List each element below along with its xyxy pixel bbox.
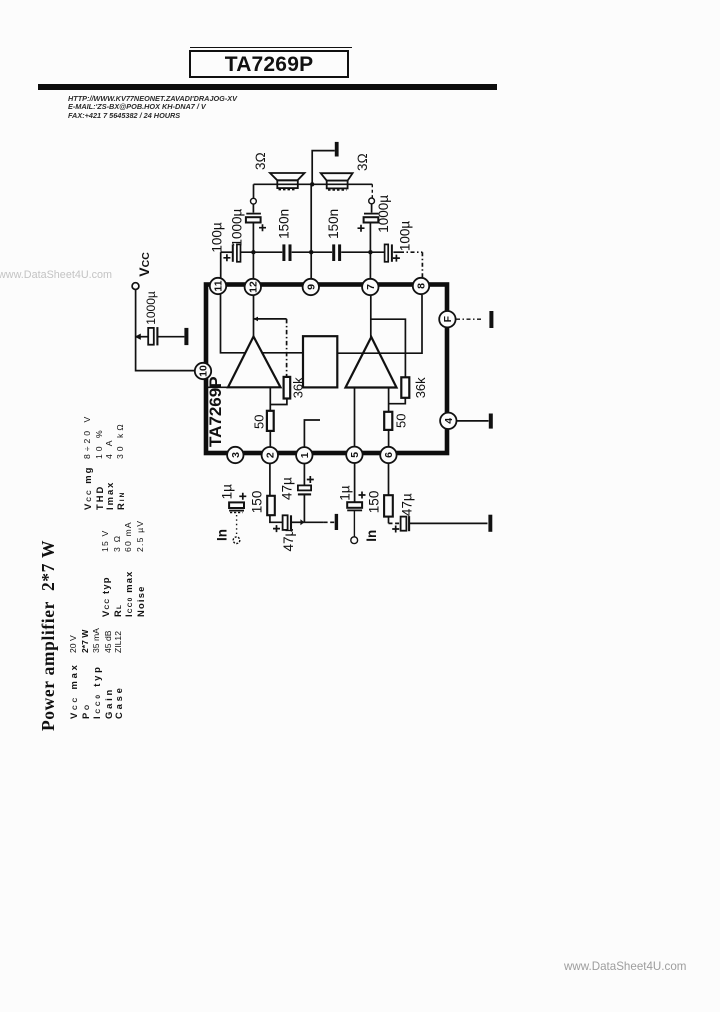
label 47u pin1 <box>280 477 295 500</box>
svg-text:50: 50 <box>394 414 409 428</box>
pin 9 <box>303 279 319 295</box>
svg-text:1µ: 1µ <box>220 484 235 500</box>
label 47u pin2 <box>281 528 296 551</box>
label 150 right <box>367 491 382 514</box>
wire dashed to LS2 terminal <box>371 184 373 197</box>
wire 50 right to pin6 <box>388 430 390 447</box>
label 100u left <box>210 222 225 253</box>
svg-text:6: 6 <box>383 452 395 458</box>
wire output bus <box>221 252 423 278</box>
wire 47u pin6 to ground <box>409 522 487 524</box>
table group C <box>83 466 127 510</box>
node feedback tap arrow <box>253 317 258 322</box>
title Power amplifier <box>38 540 59 731</box>
resistor 36k left <box>284 377 291 399</box>
watermark bottom right <box>564 960 686 973</box>
pin 8 <box>413 278 429 294</box>
label 36k right <box>413 377 428 398</box>
wire pin 4 <box>457 420 489 422</box>
resistor 150 right <box>384 495 393 516</box>
label 1u right <box>338 485 353 501</box>
wire block to pin8 <box>337 295 422 353</box>
label 47u pin6 <box>400 493 415 516</box>
header small italic text <box>68 95 237 120</box>
svg-text:1: 1 <box>299 452 311 458</box>
capacitor 1000u left coupling <box>246 204 266 251</box>
svg-text:150n: 150n <box>326 209 341 239</box>
svg-text:In: In <box>364 530 379 542</box>
label 100u right <box>398 221 413 252</box>
svg-text:3Ω: 3Ω <box>355 153 370 171</box>
wire A1 base to left edge <box>206 386 228 388</box>
label 1u left <box>220 484 235 500</box>
svg-text:1000µ: 1000µ <box>230 208 245 246</box>
wire A1 to resistor 50 <box>269 387 271 411</box>
label 150n left <box>276 209 291 239</box>
capacitor 150n left <box>284 244 290 261</box>
svg-text:2: 2 <box>264 452 276 458</box>
ground pin 4 <box>489 414 493 429</box>
pin 12 <box>245 279 261 295</box>
speaker LS2 3 ohm <box>321 173 353 190</box>
wire 36k right bottom jog <box>389 398 406 404</box>
wire A1 output to block <box>261 352 303 354</box>
wire bus risers to pins <box>253 184 370 279</box>
label LS2 3 ohm <box>355 153 370 171</box>
capacitor 100u left <box>223 244 240 261</box>
table group B <box>101 570 146 617</box>
wire pin1 stub <box>304 420 320 447</box>
node pin1 ground junction <box>300 519 304 525</box>
pin 1 <box>296 447 312 463</box>
title box TA7269P <box>189 50 349 78</box>
ground pin6 section <box>488 515 492 532</box>
wire pin12 to A1 apex <box>253 296 255 337</box>
pin 2 <box>262 447 278 463</box>
label 50 left <box>252 415 267 429</box>
svg-text:4: 4 <box>443 418 455 424</box>
wire pin11 to A1 input <box>221 295 246 353</box>
svg-text:10: 10 <box>198 365 210 377</box>
label 36k left <box>291 377 306 398</box>
wire dashed A1 feedback to 36k <box>286 319 288 377</box>
node VCC filter junction <box>135 334 141 340</box>
label In right <box>364 530 379 542</box>
svg-text:7: 7 <box>365 284 377 290</box>
pin 4 <box>440 413 456 429</box>
svg-text:In: In <box>215 529 230 541</box>
svg-text:47µ: 47µ <box>400 493 415 516</box>
resistor 50 left <box>267 411 274 431</box>
node bus pin9 <box>309 250 313 254</box>
label LS1 3 ohm <box>253 152 268 170</box>
title thin top line <box>190 47 352 48</box>
capacitor 100u right <box>385 244 400 261</box>
node bus pin7 <box>368 250 372 254</box>
svg-text:150n: 150n <box>276 209 291 239</box>
wire 36k left bottom jog <box>270 399 287 405</box>
pin 6 <box>380 447 396 463</box>
wire 150 right to 47u <box>389 517 401 524</box>
svg-text:9: 9 <box>305 284 317 290</box>
capacitor 1u input right <box>347 492 365 511</box>
terminal right speaker <box>369 198 375 204</box>
label 150 left <box>250 491 265 514</box>
svg-text:36k: 36k <box>413 377 428 398</box>
svg-text:50: 50 <box>252 415 267 429</box>
resistor 50 right <box>384 412 392 430</box>
svg-text:1µ: 1µ <box>338 485 353 501</box>
wire 1u right to In <box>353 510 355 536</box>
node bus pin12 <box>251 250 255 254</box>
wire pin7 to A2 apex <box>370 296 372 338</box>
wire A1 feedback tap <box>254 318 287 320</box>
capacitor 47u pin2 <box>273 515 291 532</box>
wire pin6 to 150 <box>388 464 390 496</box>
wire A2 feedback tap <box>371 319 406 377</box>
label 150n right <box>326 209 341 239</box>
wire pin2 to 150 <box>269 463 271 495</box>
svg-text:150: 150 <box>250 491 265 514</box>
svg-text:1000µ: 1000µ <box>376 195 391 233</box>
wire junction to ground <box>304 521 334 523</box>
svg-text:8: 8 <box>416 283 428 289</box>
svg-text:1000µ: 1000µ <box>144 291 158 325</box>
svg-text:47µ: 47µ <box>280 477 295 500</box>
ground input section <box>335 514 338 530</box>
svg-text:100µ: 100µ <box>398 221 413 252</box>
svg-text:F: F <box>442 315 454 322</box>
wire 50 left to pin2 <box>269 431 271 447</box>
pin 7 <box>362 279 378 295</box>
wire A2 to resistor 50 right <box>388 388 390 412</box>
svg-text:3: 3 <box>230 452 242 458</box>
pin 5 <box>346 447 362 463</box>
label 1000u left <box>230 208 245 246</box>
terminal In right <box>351 537 358 544</box>
block bias network <box>303 336 337 387</box>
resistor 36k right <box>401 377 409 398</box>
svg-text:150: 150 <box>367 491 382 514</box>
capacitor 47u pin6 <box>392 516 409 532</box>
svg-text:3Ω: 3Ω <box>253 152 268 170</box>
pin 11 <box>210 278 226 294</box>
label VCC <box>136 252 152 277</box>
wire pin5 to 1u <box>354 463 356 502</box>
ground supply filter <box>184 328 188 345</box>
svg-text:5: 5 <box>349 452 361 458</box>
wire 150 to 47u <box>270 515 283 522</box>
thick rule <box>38 84 497 90</box>
capacitor 150n right <box>334 244 340 261</box>
capacitor 1u input left <box>229 493 246 513</box>
pin 10 <box>195 363 211 379</box>
pin 3 <box>227 447 243 463</box>
svg-text:100µ: 100µ <box>210 222 225 253</box>
svg-text:47µ: 47µ <box>281 528 296 551</box>
resistor 150 left <box>267 496 275 515</box>
op-amp A1 <box>228 337 281 388</box>
wire 47u pin1 down <box>303 494 305 522</box>
wire pin F dashed <box>456 318 481 320</box>
table group A <box>69 662 125 719</box>
label 1000u right <box>376 195 391 233</box>
svg-text:12: 12 <box>247 281 259 293</box>
svg-text:11: 11 <box>213 280 225 291</box>
speaker LS1 3 ohm <box>270 173 305 190</box>
terminal left speaker <box>251 198 257 204</box>
capacitor 1000u supply filter <box>136 327 185 345</box>
IC U1 TA7269P body <box>206 285 447 454</box>
capacitor 1000u right coupling <box>358 204 379 252</box>
capacitor 47u pin1 <box>298 476 314 494</box>
svg-text:36k: 36k <box>291 377 306 398</box>
node speaker centre junction <box>310 182 314 186</box>
wire VCC rail <box>136 290 195 371</box>
label In left <box>215 529 230 541</box>
wire A2 output to pin5 <box>354 388 356 448</box>
wire to top ground <box>312 151 335 185</box>
svg-text:VCC: VCC <box>136 252 152 277</box>
terminal In left <box>233 537 240 544</box>
wire 47u pin2 to junction <box>291 521 304 523</box>
label IC TA7269P <box>206 376 225 447</box>
op-amp A2 <box>346 337 397 388</box>
wire speaker row <box>254 184 373 198</box>
label 1000u supply <box>144 291 158 325</box>
wire dotted 1u to In left <box>236 515 238 537</box>
ground top <box>335 142 339 157</box>
ground pin F <box>489 311 493 328</box>
label 50 right <box>394 414 409 428</box>
pin F <box>439 311 455 327</box>
watermark left <box>0 269 112 281</box>
wire pin1 to 47u <box>303 464 305 486</box>
terminal VCC <box>132 283 139 290</box>
